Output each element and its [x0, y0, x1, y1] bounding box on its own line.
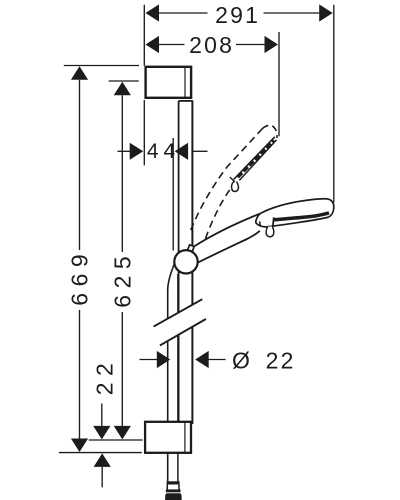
hose nut (dark) [165, 493, 182, 500]
solid head hook [266, 226, 274, 237]
hand shower solid: head [256, 199, 334, 227]
holder nub [188, 245, 194, 252]
dimension 625 [89, 81, 143, 440]
svg-text:291: 291 [215, 2, 260, 28]
break slash 2 [160, 319, 206, 345]
dashed head clip tick [230, 177, 235, 182]
hose connector bar 1 [167, 481, 180, 484]
svg-text:208: 208 [189, 32, 234, 58]
dimension 669 [59, 66, 142, 453]
break band (white gap) [152, 301, 209, 348]
svg-text:22: 22 [92, 357, 118, 396]
hand shower solid: handle [194, 213, 261, 262]
dashed head spray face edge 1 [234, 137, 275, 180]
dimension 22 (bottom) [93, 404, 111, 488]
slider holder circle [174, 250, 197, 273]
dashed head nozzle strip [238, 141, 275, 178]
hose connector bar 2 [166, 489, 181, 492]
hose from handle down left side of rail [168, 262, 175, 319]
dashed head top cap [263, 125, 278, 138]
dimension 44 [118, 100, 208, 251]
dashed head spray face edge 2 [239, 140, 276, 181]
dimension 291 [144, 4, 333, 202]
svg-text:Ø 22: Ø 22 [232, 348, 296, 374]
hand shower dashed alternate position: handle outer curve [191, 129, 263, 231]
dashed head hook [232, 181, 239, 191]
hand shower dashed alternate position: handle inner curve [206, 185, 234, 239]
dimension 208 [146, 32, 280, 136]
top wall bracket [146, 67, 192, 98]
svg-text:669: 669 [67, 248, 93, 306]
bottom wall bracket [145, 422, 191, 453]
solid head nozzle strip [274, 213, 330, 220]
solid head joint lines [259, 221, 262, 226]
svg-text:625: 625 [109, 250, 135, 308]
dimension diameter 22 [140, 351, 226, 368]
svg-text:44: 44 [147, 140, 180, 163]
shower rail bar [179, 101, 193, 424]
break slash 1 [154, 299, 203, 326]
